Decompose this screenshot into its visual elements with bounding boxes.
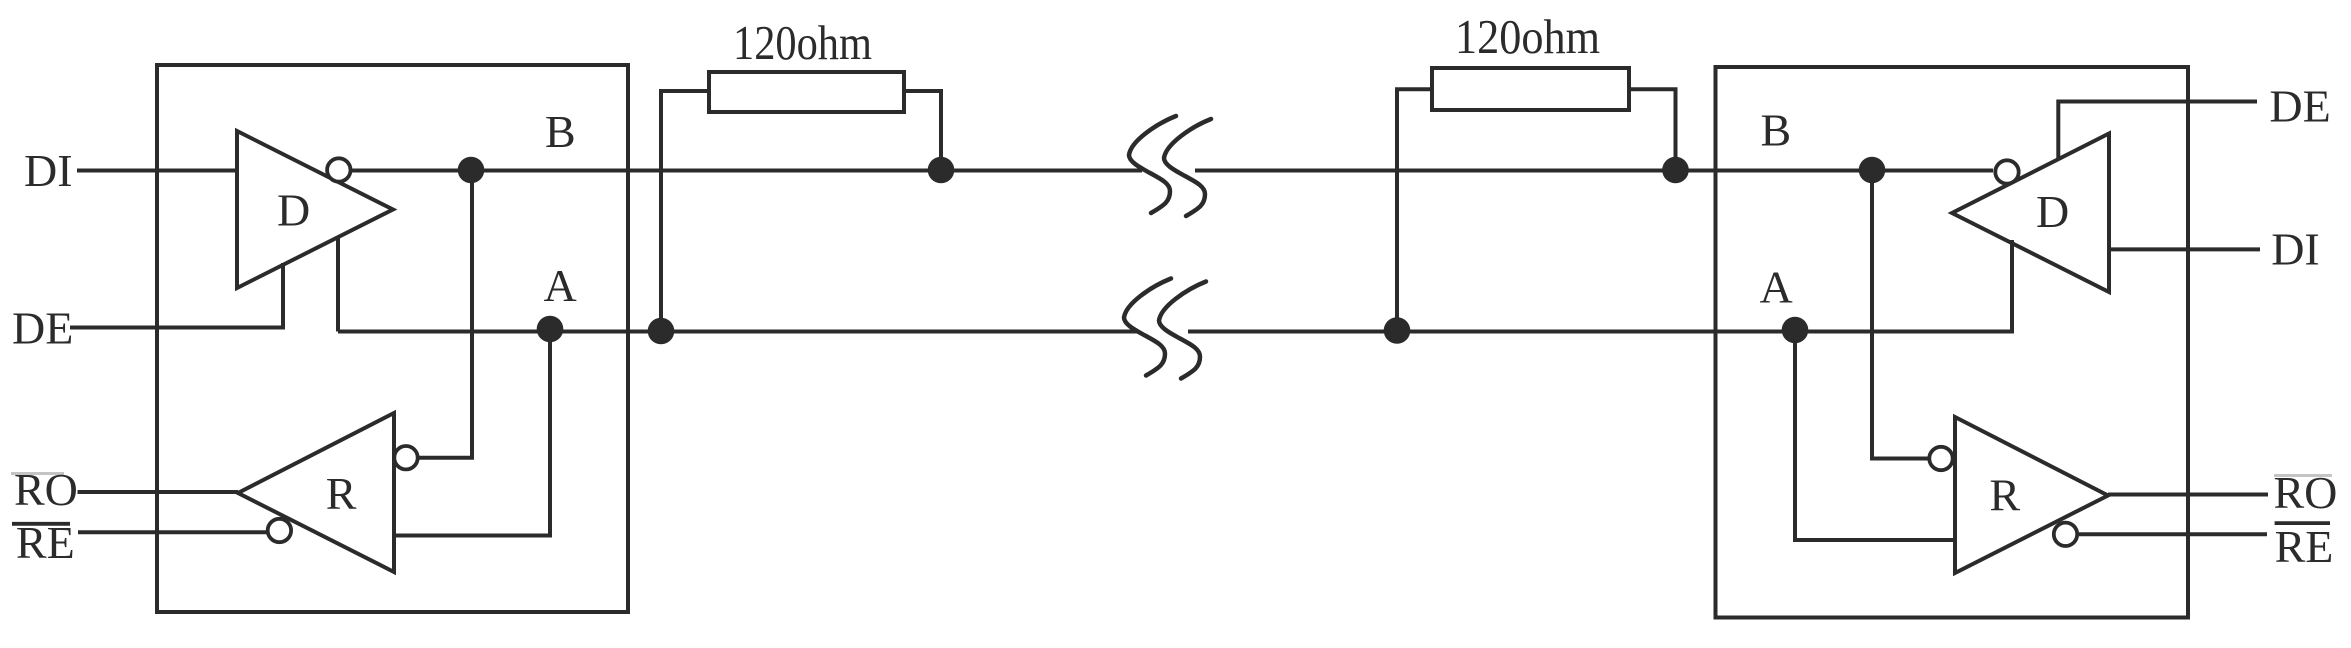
wire A bus left segment	[338, 330, 1137, 334]
faint RO overline right	[2274, 474, 2332, 477]
svg-text:DE: DE	[12, 303, 73, 354]
wire A down to R2 input	[1795, 332, 1955, 541]
resistor left lead to A	[661, 91, 709, 332]
transceiver box U1 (left)	[157, 65, 628, 612]
junction dot resistor-A	[648, 318, 675, 345]
resistor 120ohm left body	[709, 72, 904, 112]
svg-text:D: D	[277, 185, 310, 236]
svg-text:RO: RO	[14, 464, 78, 515]
svg-text:DI: DI	[2271, 224, 2320, 275]
svg-text:R: R	[326, 468, 357, 519]
svg-text:DE: DE	[2269, 81, 2330, 132]
svg-text:A: A	[1760, 262, 1793, 313]
wire B bus left segment	[351, 169, 1143, 173]
wire RE right	[2078, 532, 2268, 536]
svg-text:B: B	[545, 106, 576, 157]
transceiver box U2 (right)	[1716, 67, 2189, 618]
wire A down to R1 input	[394, 332, 550, 536]
receiver R2 triangle	[1955, 417, 2108, 573]
wire RO right	[2108, 493, 2268, 497]
bubble D1 output	[327, 158, 350, 181]
node B junction dot (to R2)	[1859, 157, 1886, 184]
RE overline right	[2275, 521, 2330, 525]
svg-text:R: R	[1989, 470, 2020, 521]
junction dot resistor-B	[928, 157, 955, 184]
driver D1 triangle	[237, 131, 393, 288]
node A junction dot (to R2)	[1782, 317, 1809, 344]
bubble R1 RE enable	[268, 519, 291, 542]
faint RO overline left	[11, 472, 64, 475]
junction dot resistor2-B	[1662, 157, 1689, 184]
wire RE left	[78, 530, 268, 534]
svg-text:D: D	[2036, 186, 2069, 237]
svg-text:DI: DI	[24, 145, 73, 196]
cable break A line squiggle 2	[1159, 282, 1206, 379]
receiver R1 triangle	[238, 413, 394, 572]
bubble D2 output	[1995, 160, 2018, 183]
junction dot resistor2-A	[1384, 317, 1411, 344]
svg-text:RE: RE	[2275, 521, 2334, 572]
svg-text:A: A	[544, 260, 577, 311]
wire DE left with enable vertical to D1	[70, 263, 283, 328]
resistor right: right lead to B	[1629, 89, 1676, 170]
svg-text:RE: RE	[16, 517, 75, 568]
resistor 120ohm right body	[1432, 68, 1629, 110]
wire DE right with enable vertical	[2058, 102, 2257, 161]
cable break B line squiggle 1	[1129, 116, 1176, 213]
svg-text:B: B	[1761, 105, 1792, 156]
bubble R2 RE enable	[2054, 523, 2077, 546]
resistor right: left lead to A	[1397, 89, 1432, 331]
wire B down to R2 bubble	[1872, 171, 1930, 459]
cable break B line squiggle 2	[1164, 119, 1211, 216]
node A junction dot (to R1)	[537, 316, 564, 343]
driver D2 triangle	[1952, 134, 2109, 293]
cable break A line squiggle 1	[1124, 279, 1171, 376]
node B junction dot (to R1)	[458, 157, 485, 184]
wire D1 bottom output down to A	[336, 236, 340, 332]
resistor right lead to B	[904, 91, 941, 171]
wire A bus right segment with turn up to D2	[1188, 240, 2012, 332]
svg-text:120ohm: 120ohm	[1455, 9, 1600, 64]
bubble R2 B-input	[1929, 447, 1952, 470]
wire RO left	[78, 490, 239, 494]
svg-text:RO: RO	[2274, 467, 2338, 518]
bubble R1 B-input	[394, 446, 417, 469]
wire DI right	[2109, 247, 2260, 251]
wire B down to R1 bubble	[418, 171, 472, 458]
svg-text:120ohm: 120ohm	[733, 15, 872, 70]
RE overline left	[12, 522, 70, 526]
wire DI left	[77, 169, 237, 173]
wire B bus right segment	[1195, 169, 1993, 173]
